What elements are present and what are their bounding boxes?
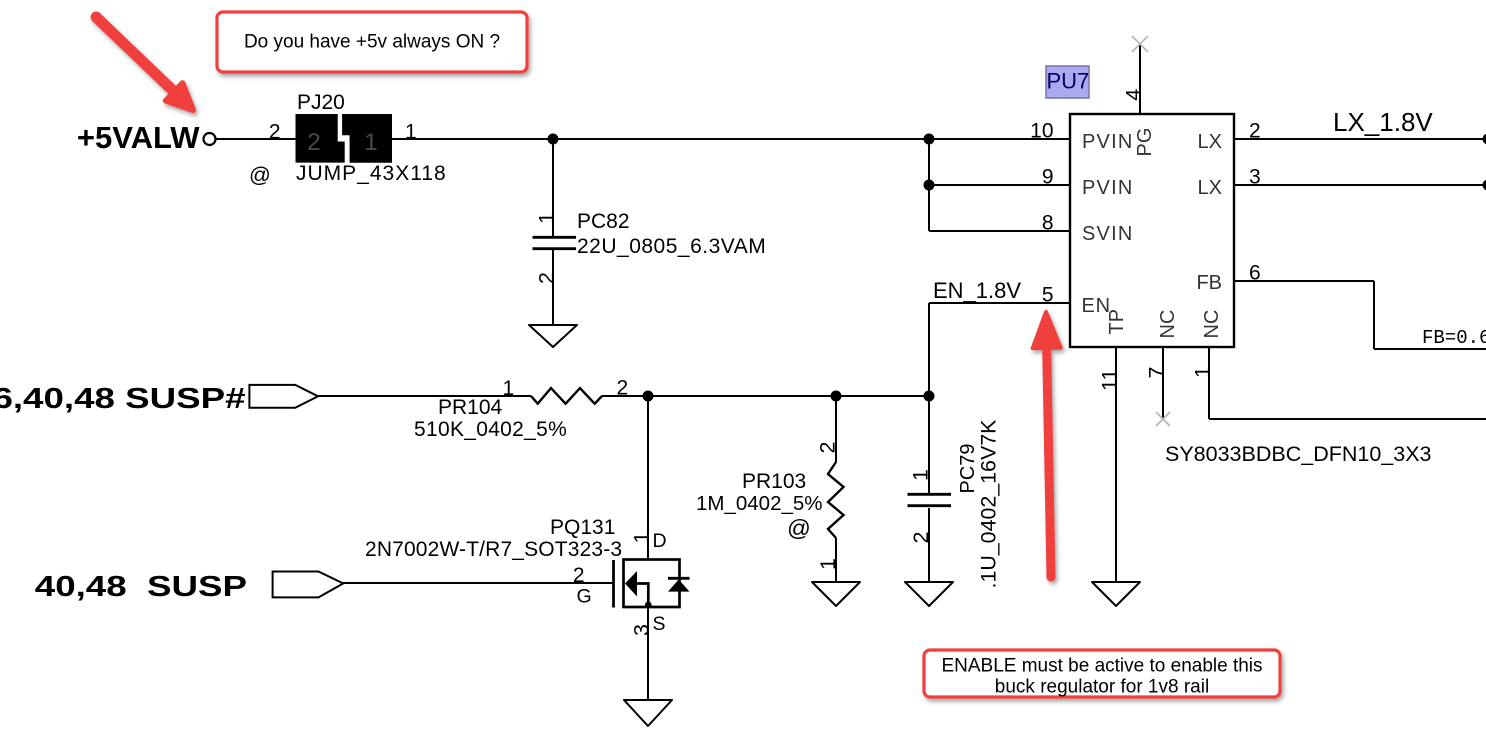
input port 36,40,48 SUSP# — [0, 383, 318, 415]
svg-text:LX: LX — [1198, 177, 1222, 199]
svg-text:1M_0402_5%: 1M_0402_5% — [696, 492, 823, 515]
svg-text:1: 1 — [1191, 366, 1215, 378]
svg-text:PVIN: PVIN — [1082, 131, 1133, 153]
svg-text:@: @ — [249, 163, 271, 187]
svg-text:7: 7 — [1145, 367, 1169, 379]
svg-text:2: 2 — [573, 564, 585, 587]
ground below PR103 — [812, 582, 860, 606]
pin 1 NC wire to right — [1191, 347, 1486, 419]
capacitor PC79 .1U_0402_16V7K — [908, 396, 1001, 589]
svg-text:TP: TP — [1106, 309, 1128, 335]
wire to pin 8 SVIN — [929, 230, 1070, 232]
svg-text:PQ131: PQ131 — [550, 516, 615, 539]
wire to pin 9 PVIN — [929, 184, 1070, 186]
junction at PR103 tap — [831, 391, 842, 402]
svg-text:8: 8 — [1042, 212, 1054, 235]
svg-text:FB: FB — [1196, 272, 1222, 294]
svg-text:4: 4 — [1122, 89, 1146, 101]
svg-text:PU7: PU7 — [1047, 69, 1090, 94]
svg-text:1: 1 — [503, 377, 515, 400]
red annotation arrow pointing to +5VALW node — [96, 17, 193, 110]
svg-text:2: 2 — [307, 129, 321, 156]
svg-text:PC82: PC82 — [577, 210, 630, 233]
ground below PQ131 source — [624, 700, 672, 726]
svg-text:2: 2 — [535, 272, 559, 284]
svg-text:PR104: PR104 — [438, 396, 503, 419]
svg-text:3: 3 — [1249, 166, 1261, 189]
capacitor PC82 22U_0805_6.3VAM — [533, 139, 767, 325]
pin 6 FB wire — [1234, 262, 1486, 350]
wire +5VALW to PJ20 pin 2 — [215, 138, 296, 140]
svg-text:EN_1.8V: EN_1.8V — [933, 278, 1021, 303]
svg-text:.1U_0402_16V7K: .1U_0402_16V7K — [977, 419, 1001, 589]
svg-text:6,40,48 SUSP#: 6,40,48 SUSP# — [0, 383, 246, 415]
ground below TP — [1092, 582, 1140, 606]
svg-text:22U_0805_6.3VAM: 22U_0805_6.3VAM — [577, 235, 766, 258]
svg-text:buck regulator for 1v8 rail: buck regulator for 1v8 rail — [995, 677, 1209, 698]
jumper PJ20 — [249, 91, 447, 187]
svg-text:5: 5 — [1042, 284, 1054, 307]
svg-text:10: 10 — [1030, 120, 1053, 143]
IC PU7 refdes label (highlighted) — [1046, 66, 1089, 98]
svg-text:40,48 SUSP: 40,48 SUSP — [35, 571, 247, 603]
svg-text:510K_0402_5%: 510K_0402_5% — [414, 418, 567, 441]
svg-text:PG: PG — [1134, 128, 1156, 157]
node +5VALW open terminal — [204, 133, 216, 145]
edge junction stub pin2 — [1483, 134, 1486, 145]
pin 7 NC stub with no-connect — [1145, 347, 1171, 426]
svg-text:2N7002W-T/R7_SOT323-3: 2N7002W-T/R7_SOT323-3 — [365, 538, 622, 561]
svg-text:LX: LX — [1198, 131, 1222, 153]
svg-text:NC: NC — [1157, 310, 1179, 339]
svg-text:PR103: PR103 — [742, 470, 806, 493]
resistor PR103 1M_0402_5% — [696, 396, 844, 582]
svg-text:JUMP_43X118: JUMP_43X118 — [296, 162, 447, 185]
svg-text:PJ20: PJ20 — [297, 91, 345, 114]
callout note: Do you have +5v always ON ? — [217, 12, 527, 72]
svg-text:LX_1.8V: LX_1.8V — [1333, 107, 1433, 137]
ground below PC82 — [529, 325, 577, 347]
svg-text:PVIN: PVIN — [1082, 177, 1133, 199]
svg-text:2: 2 — [816, 442, 840, 454]
junction at EN / PC79 tap — [924, 391, 935, 402]
svg-text:1: 1 — [535, 212, 559, 224]
svg-text:@: @ — [787, 515, 811, 541]
wire SUSP to PQ131 gate — [343, 582, 613, 584]
svg-text:ENABLE must be active to enabl: ENABLE must be active to enable this — [941, 656, 1262, 677]
svg-text:11: 11 — [1098, 369, 1122, 391]
junction at PC82 tap — [548, 134, 559, 145]
wire PJ20 pin 1 to IC PVIN (main rail) — [391, 138, 1070, 140]
svg-text:D: D — [653, 530, 667, 552]
svg-text:1: 1 — [629, 532, 653, 544]
transistor PQ131 2N7002W (N-MOSFET) — [365, 396, 690, 700]
pin 11 TP wire to ground — [1098, 347, 1122, 582]
svg-text:3: 3 — [629, 624, 653, 636]
resistor PR104 510K_0402_5% — [414, 377, 628, 442]
svg-text:1: 1 — [364, 129, 378, 156]
wire SUSP# to resistor PR104 — [318, 395, 531, 397]
ground below PC79 — [905, 582, 953, 606]
wire drop to PVIN-9 and SVIN — [928, 139, 930, 231]
svg-text:6: 6 — [1249, 262, 1261, 285]
callout note: ENABLE must be active — [924, 650, 1280, 698]
svg-text:2: 2 — [1249, 120, 1261, 143]
svg-text:FB=0.6: FB=0.6 — [1422, 327, 1486, 349]
pin 4 (PG top) with no-connect — [1122, 36, 1149, 114]
pin 2 wire LX_1.8V — [1234, 120, 1486, 143]
svg-text:1: 1 — [909, 469, 933, 481]
svg-text:Do you have +5v always ON ?: Do you have +5v always ON ? — [244, 32, 500, 53]
edge junction stub pin3 — [1483, 180, 1486, 191]
pin 3 wire — [1234, 166, 1486, 189]
red annotation arrow pointing to EN pin — [1033, 312, 1061, 577]
junction PVIN-9 — [924, 180, 935, 191]
junction at PQ131 drain tap — [643, 391, 654, 402]
svg-text:S: S — [653, 613, 666, 635]
svg-text:SVIN: SVIN — [1082, 223, 1133, 245]
svg-text:G: G — [577, 586, 592, 608]
svg-text:NC: NC — [1201, 310, 1223, 339]
svg-text:SY8033BDBC_DFN10_3X3: SY8033BDBC_DFN10_3X3 — [1165, 442, 1432, 466]
IC body — [1070, 114, 1234, 347]
wire EN net to pin 5 — [929, 303, 1070, 396]
junction main rail to PVIN-9/SVIN drop — [924, 134, 935, 145]
input port 40,48 SUSP — [35, 571, 343, 603]
svg-text:2: 2 — [909, 532, 933, 544]
svg-text:2: 2 — [269, 121, 281, 144]
wire PR104 to EN junction — [602, 395, 929, 397]
svg-text:1: 1 — [405, 121, 417, 144]
svg-text:+5VALW: +5VALW — [77, 120, 200, 155]
svg-text:9: 9 — [1042, 166, 1054, 189]
